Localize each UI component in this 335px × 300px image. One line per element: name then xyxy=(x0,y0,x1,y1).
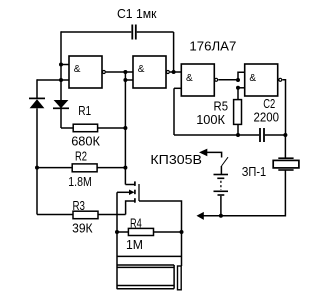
power arrow upper xyxy=(199,149,207,157)
piezo emitter ЗП-1 body xyxy=(273,160,299,168)
node R1 right xyxy=(123,126,127,130)
wire diode2 bottom to R1 xyxy=(60,108,62,128)
wire switch arrow lead xyxy=(207,152,222,157)
wire R4 left lead xyxy=(117,231,128,233)
wire mid horizontal right of C2 xyxy=(265,134,286,136)
wire piezo bottom to rail xyxy=(204,170,286,216)
capacitor C1 xyxy=(132,25,136,40)
transistor VT1 substrate arrow xyxy=(129,190,135,196)
transistor VT1 substrate lead xyxy=(117,191,130,193)
wire left input rail xyxy=(60,31,62,100)
capacitor C2 xyxy=(260,128,264,142)
wire R5 top lead xyxy=(237,88,239,100)
wire gate2 input lower xyxy=(125,79,133,81)
wire top feedback right segment xyxy=(137,31,174,33)
NAND gate DD1.4 (176ЛА7) xyxy=(245,64,282,96)
wire switch to battery xyxy=(220,166,222,175)
node R5 bottom xyxy=(236,133,240,137)
resistor R3 xyxy=(73,211,98,219)
svg-text:1.8М: 1.8М xyxy=(68,174,92,189)
NAND gate DD1.2 (176ЛА7) xyxy=(133,56,169,88)
svg-text:1М: 1М xyxy=(126,237,143,252)
wire R3 right lead to source bend xyxy=(98,214,126,216)
wire top feedback left segment xyxy=(61,31,131,33)
wire substrate node vertical xyxy=(116,192,118,289)
svg-text:R3: R3 xyxy=(73,198,86,213)
svg-text:&: & xyxy=(74,64,81,75)
wire gate4 lower input xyxy=(238,87,245,89)
transistor VT1 gate lead to R4 right xyxy=(139,201,182,232)
svg-text:ЗП-1: ЗП-1 xyxy=(242,164,267,179)
svg-text:R2: R2 xyxy=(75,148,87,163)
transistor VT1 source lead xyxy=(126,201,135,215)
wire diode1 bottom to R3 corner xyxy=(36,108,38,214)
wire battery to rail xyxy=(220,196,222,216)
wire diode1 top lead xyxy=(36,79,38,98)
node C2 right xyxy=(283,133,287,137)
svg-text:100К: 100К xyxy=(196,112,225,127)
wire gate4 output xyxy=(283,80,286,135)
svg-text:R1: R1 xyxy=(78,103,91,118)
diode VD1 xyxy=(29,98,45,108)
node R2 right xyxy=(123,166,127,170)
svg-text:2200: 2200 xyxy=(254,109,280,124)
node gate2 input upper xyxy=(123,70,127,74)
wire right feedback vertical xyxy=(173,32,175,72)
wire R2 right lead xyxy=(97,167,125,169)
node feedback junction xyxy=(172,70,176,74)
node gate1 input lower xyxy=(59,78,63,82)
svg-text:КП305В: КП305В xyxy=(150,152,202,167)
transistor VT1 channel contact bars xyxy=(134,181,136,202)
wire R2 left lead xyxy=(37,167,72,169)
resistor R2 xyxy=(72,164,97,172)
NAND gate DD1.3 (176ЛА7) xyxy=(181,64,217,96)
resistor R5 xyxy=(234,100,242,125)
wire gate3 input lower xyxy=(174,87,181,89)
diode VD2 xyxy=(53,100,69,108)
wire gate3 lower input drop xyxy=(173,88,175,135)
wire mid horizontal left of C2 xyxy=(174,134,259,136)
node R4 left xyxy=(115,230,119,234)
svg-text:&: & xyxy=(186,73,193,84)
wire middle rail xyxy=(124,72,126,185)
node gate4 input upper xyxy=(236,78,240,82)
svg-text:680К: 680К xyxy=(71,133,100,148)
wire R3 left lead xyxy=(37,214,73,216)
telephone capsule BF1 body lines xyxy=(117,264,174,266)
svg-text:R4: R4 xyxy=(130,215,142,230)
wire R5 bottom lead xyxy=(237,124,239,135)
wire capsule right lead xyxy=(181,232,183,266)
svg-text:С1 1мк: С1 1мк xyxy=(117,6,157,21)
telephone capsule BF1 side plate xyxy=(178,266,182,290)
wire R4 right lead xyxy=(154,231,182,233)
wire gate4 upper input bend xyxy=(238,72,245,80)
wire gate1 input upper xyxy=(61,64,69,66)
node R4 right xyxy=(180,230,184,234)
resistor R4 xyxy=(128,228,153,235)
node gate4 input lower xyxy=(236,86,240,90)
svg-text:R5: R5 xyxy=(214,98,229,113)
node R2 left xyxy=(35,166,39,170)
switch SA1 blade xyxy=(222,157,229,166)
wire R1 right lead xyxy=(98,127,126,129)
wire gate3 output xyxy=(218,79,238,81)
svg-text:176ЛА7: 176ЛА7 xyxy=(189,39,236,54)
transistor VT1 КП305В drain lead xyxy=(125,184,134,186)
resistor R1 xyxy=(73,124,97,132)
wire gate2 output xyxy=(170,71,181,73)
wire R1 left lead xyxy=(61,127,73,129)
node gate1 input upper xyxy=(59,63,63,67)
node battery rail xyxy=(219,214,223,218)
wire gate1 input lower xyxy=(37,79,69,81)
node gate2 input lower xyxy=(123,78,127,82)
piezo emitter ЗП-1 electrodes xyxy=(278,157,293,159)
power arrow lower xyxy=(197,212,204,220)
battery GB1 cells xyxy=(214,175,229,196)
wire gate1 output xyxy=(106,71,133,73)
svg-text:39К: 39К xyxy=(72,220,93,235)
NAND gate DD1.1 (176ЛА7) xyxy=(69,56,105,88)
svg-text:&: & xyxy=(138,64,145,75)
svg-text:&: & xyxy=(249,73,256,84)
wire C2 node to piezo xyxy=(284,135,286,158)
transistor VT1 gate line xyxy=(138,184,140,201)
telephone capsule BF1 membrane line xyxy=(117,255,182,257)
